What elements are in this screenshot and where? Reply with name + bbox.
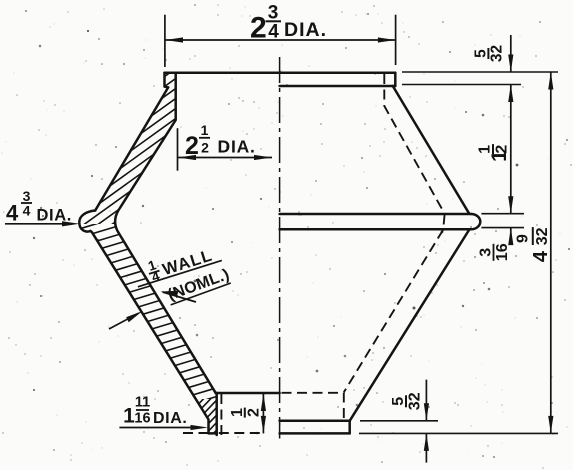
dimension 2-1/2 DIA <box>178 128 273 171</box>
svg-text:5: 5 <box>390 397 407 406</box>
hidden vertical at left foot <box>220 394 222 436</box>
arrowhead left 2-3/4 <box>165 37 183 42</box>
svg-text:2: 2 <box>201 140 209 156</box>
left inner wall (section cut) <box>115 73 216 393</box>
arrowhead up to bottom <box>424 433 429 451</box>
label 1/2 (rotated) <box>229 408 262 418</box>
ext band top <box>481 213 524 215</box>
arrowhead up to rim bottom <box>508 85 513 103</box>
dim line right column (5/32, 1-1/2, 3/16) <box>510 35 512 245</box>
hidden inner bottom right + collar <box>282 393 344 421</box>
arrowhead down to band top <box>508 196 513 214</box>
bottom band right face <box>348 421 351 434</box>
svg-text:16: 16 <box>494 243 511 261</box>
leader 1-11/16 DIA <box>119 427 200 429</box>
extension line left <box>164 15 166 67</box>
section hatching upper cone <box>70 38 235 470</box>
svg-text:4: 4 <box>268 22 279 43</box>
svg-text:5: 5 <box>472 49 489 58</box>
bottom band bottom edge <box>280 432 350 435</box>
hidden inner wall lower right <box>344 230 443 392</box>
note 1/4 WALL (tilted) <box>131 238 223 290</box>
bead left (4-3/4 dia bulge) <box>79 211 95 232</box>
left outer wall upper cone <box>95 87 168 210</box>
part outline <box>79 73 480 435</box>
ext rim top <box>402 71 558 73</box>
left outer wall lower cone <box>91 231 217 433</box>
label 1-1/2 (rotated) <box>477 144 512 162</box>
svg-text:1: 1 <box>201 122 209 138</box>
svg-text:9: 9 <box>514 234 531 243</box>
svg-text:DIA.: DIA. <box>153 410 187 427</box>
svg-text:DIA.: DIA. <box>218 136 256 156</box>
svg-text:3: 3 <box>478 248 495 257</box>
dimension line <box>165 39 395 41</box>
hidden lines (dashed) <box>183 74 445 436</box>
mid band top edge <box>280 213 471 216</box>
mid band rounded right cap <box>471 214 480 229</box>
label 1-11/16 DIA <box>123 395 187 428</box>
wall arrow outer <box>109 314 138 330</box>
dim 4-9/32 overall height <box>550 72 552 433</box>
bottom band top edge right <box>280 420 350 423</box>
label 4-3/4 DIA <box>6 188 72 226</box>
label 2-1/2 DIA <box>185 122 256 160</box>
svg-text:32: 32 <box>488 45 505 62</box>
note (NOML.) (tilted) <box>165 266 232 305</box>
arrowhead up to band bottom <box>508 228 513 246</box>
svg-text:4: 4 <box>530 250 552 262</box>
rim top edge <box>165 72 396 75</box>
svg-text:16: 16 <box>134 410 150 426</box>
svg-text:1: 1 <box>477 145 494 154</box>
ext part bottom <box>359 432 558 434</box>
svg-text:2: 2 <box>245 408 262 417</box>
right outer wall upper cone <box>393 86 469 213</box>
label 3/16 (rotated) <box>478 243 512 261</box>
extension line <box>177 128 179 171</box>
extension line right <box>395 15 397 65</box>
dim 1/2 bottom center <box>262 394 264 434</box>
arrowhead down to band top <box>424 403 429 421</box>
right side extension lines <box>359 72 558 433</box>
svg-text:2: 2 <box>250 12 267 45</box>
arrowhead left 2-1/2 <box>178 155 196 160</box>
arrowhead down to rim top <box>508 55 513 73</box>
svg-text:11: 11 <box>135 395 150 411</box>
hidden inner crossing the band <box>443 215 444 230</box>
dim 5/32 bottom band <box>425 380 427 463</box>
arrowhead right 2-3/4 <box>378 37 396 42</box>
arrowhead right 2-1/2 <box>254 155 272 160</box>
wall arrow inner <box>163 292 197 302</box>
svg-text:4: 4 <box>6 201 19 226</box>
rim bottom edge right half <box>280 85 396 88</box>
hidden bottom right of foot <box>219 432 262 434</box>
hidden bottom left of foot <box>183 432 208 434</box>
ext rim bottom <box>402 84 521 86</box>
svg-text:DIA.: DIA. <box>37 206 72 224</box>
label 5/32 bottom (rotated) <box>390 392 424 410</box>
ext band bottom <box>481 227 524 229</box>
label 2-3/4 DIA <box>250 3 327 45</box>
svg-text:DIA.: DIA. <box>284 19 327 41</box>
svg-text:32: 32 <box>407 392 424 410</box>
svg-text:2: 2 <box>494 145 511 154</box>
svg-text:32: 32 <box>534 227 551 245</box>
dimension line <box>178 157 272 159</box>
ext bottom band top <box>360 420 438 422</box>
mid band bottom edge <box>280 228 471 231</box>
centerline <box>279 57 281 439</box>
dimension 2-3/4 DIA <box>165 15 396 67</box>
rim right face <box>394 73 397 86</box>
label 5/32 top (rotated) <box>472 45 505 62</box>
right outer wall lower cone <box>350 230 469 421</box>
svg-text:2: 2 <box>185 132 199 160</box>
leader 4-3/4 DIA <box>5 223 72 225</box>
hidden bore right: vertical then diagonal <box>384 74 444 214</box>
svg-text:4: 4 <box>23 203 31 219</box>
label 4 9/32 (rotated) <box>514 227 552 262</box>
svg-text:1: 1 <box>229 408 246 417</box>
rim left face with step <box>165 73 169 88</box>
inner bottom surface (section) <box>216 392 280 395</box>
svg-text:1: 1 <box>123 404 135 427</box>
